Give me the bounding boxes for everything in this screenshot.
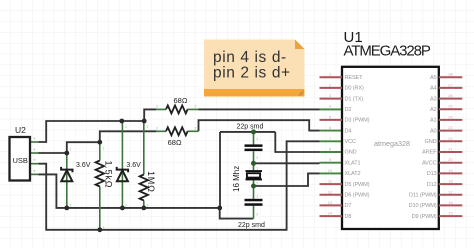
U1 left pin numbers: [328, 72, 333, 216]
svg-text:XLAT1: XLAT1: [345, 160, 361, 166]
wire D+ net riser to bottom 68R resistor: [67, 131, 156, 153]
pin 21 AREF stub: [439, 151, 463, 153]
crystal Y1 16 Mhz: [246, 170, 263, 180]
svg-text:D3 (PWM): D3 (PWM): [345, 118, 370, 124]
svg-text:+: +: [33, 147, 36, 152]
junction cap C1 / crystal: [251, 161, 256, 166]
svg-text:14: 14: [328, 211, 333, 216]
svg-text:16: 16: [448, 200, 453, 205]
pin 14 D8 stub: [320, 215, 343, 217]
pin 3 D1 stub: [320, 98, 343, 100]
pin 19 D13 stub: [439, 172, 463, 174]
wire crystal top cap rail: [220, 131, 275, 133]
resistor R2 68R bottom: [166, 127, 188, 135]
svg-text:U2: U2: [15, 125, 26, 135]
svg-text:1: 1: [70, 148, 72, 152]
svg-text:D13: D13: [427, 171, 437, 177]
wire USB pin3 to bottom rail and VCC riser: [39, 141, 320, 230]
svg-text:AVCC: AVCC: [422, 160, 437, 166]
capacitor C2 22p smd: [245, 199, 263, 206]
svg-text:18: 18: [448, 179, 453, 184]
svg-text:A0: A0: [430, 128, 437, 134]
pin 22 GND stub: [439, 140, 463, 142]
svg-text:D1 (TX): D1 (TX): [345, 96, 364, 102]
wire USB pin4 to GND rail: [39, 174, 220, 208]
resistor R4 1M leads: [143, 121, 145, 208]
svg-text:12: 12: [328, 189, 333, 194]
GREEN LEADS: [30, 109, 254, 229]
svg-text:D6 (PWM): D6 (PWM): [345, 193, 370, 199]
junction GND rail / zener D1 bottom: [64, 206, 69, 211]
svg-text:2: 2: [256, 156, 258, 160]
svg-text:pin 4 is d-: pin 4 is d-: [213, 49, 287, 66]
junction cap C1 top: [251, 129, 256, 134]
svg-text:USB: USB: [13, 156, 28, 165]
svg-text:2: 2: [256, 213, 258, 217]
svg-text:D7: D7: [345, 203, 352, 209]
svg-text:22: 22: [448, 136, 453, 141]
pin 20 AVCC stub: [439, 162, 463, 164]
svg-text:24: 24: [448, 114, 453, 119]
svg-text:A1: A1: [430, 118, 437, 124]
svg-text:10: 10: [328, 168, 333, 173]
svg-text:D10 (PWM): D10 (PWM): [409, 203, 437, 209]
wire GND rail drop under caps: [220, 208, 254, 219]
pin 18 D12 stub: [439, 183, 463, 185]
pin 28 A5 stub: [439, 76, 463, 78]
USB pin 4 lead: [30, 173, 39, 175]
wire D- riser to top 68R resistor: [144, 109, 156, 121]
svg-text:A2: A2: [430, 107, 437, 113]
zener diode D2 3.6V: [117, 167, 128, 181]
wire bottom 68R to chip pin D4: [199, 120, 320, 131]
svg-text:15: 15: [448, 211, 453, 216]
svg-text:GND: GND: [345, 150, 357, 156]
svg-text:GND: GND: [425, 139, 437, 145]
resistor pin markers: [156, 104, 198, 131]
IC U1 ATMEGA328P body: [342, 29, 439, 229]
svg-text:+: +: [33, 168, 36, 173]
U1 right pin numbers: [448, 72, 453, 216]
svg-text:D11 (PWM): D11 (PWM): [409, 193, 437, 199]
svg-text:28: 28: [448, 72, 453, 77]
pin 16 D10 stub: [439, 204, 463, 206]
U1 right pin stubs (unconnected, red): [439, 77, 463, 216]
resistor R1 top 68R leads: [156, 108, 199, 110]
svg-text:1.5kΩ: 1.5kΩ: [103, 161, 113, 189]
svg-text:27: 27: [448, 82, 453, 87]
chip pin D2 stub: [320, 108, 343, 110]
svg-text:RESET: RESET: [345, 75, 364, 81]
svg-text:2: 2: [70, 204, 72, 208]
svg-text:17: 17: [448, 189, 453, 194]
svg-text:D12: D12: [427, 182, 437, 188]
U1 left pin names: [345, 75, 370, 220]
pin 2 D0 stub: [320, 87, 343, 89]
wire crystal cap rail left drop: [219, 132, 221, 208]
svg-text:23: 23: [448, 125, 453, 130]
junction GND rail / 1M bottom: [141, 206, 146, 211]
JUNCTION DOTS: [64, 119, 222, 233]
pin 23 A0 stub: [439, 130, 463, 132]
svg-text:1: 1: [256, 195, 258, 199]
wire crystal top junction to chip XLAT1: [254, 162, 320, 164]
resistor R4 1M: [140, 175, 148, 201]
svg-text:pin 2 is d+: pin 2 is d+: [213, 65, 291, 82]
USB pin 1 lead: [30, 141, 39, 143]
svg-text:1: 1: [147, 125, 149, 129]
zener D1 lead: [66, 153, 68, 208]
svg-text:1: 1: [103, 147, 105, 151]
svg-text:19: 19: [448, 168, 453, 173]
pin 15 D9 stub: [439, 215, 463, 217]
svg-text:+: +: [33, 158, 36, 163]
resistor R2 bottom 68R leads: [156, 130, 199, 132]
svg-text:A3: A3: [430, 96, 437, 102]
svg-text:26: 26: [448, 93, 453, 98]
svg-text:68Ω: 68Ω: [168, 138, 182, 147]
resistor R1 68R top: [166, 105, 188, 113]
svg-text:2: 2: [125, 204, 127, 208]
pin 13 D7 stub: [320, 204, 343, 206]
pin 1 RESET stub: [320, 76, 343, 78]
USB pin 3 lead: [30, 163, 39, 165]
svg-text:A5: A5: [430, 75, 437, 81]
junction GND rail / zener D2 bottom: [120, 206, 125, 211]
svg-text:13: 13: [328, 200, 333, 205]
svg-text:1MΩ: 1MΩ: [146, 171, 156, 193]
junction bottom rail / 1.5k bottom: [97, 227, 102, 232]
wire crystal bottom junction to chip XLAT2: [254, 173, 320, 186]
svg-text:2: 2: [147, 204, 149, 208]
U1 left pin stubs (unconnected, red): [320, 77, 343, 216]
wire USB pin2 to zener D1 junction: [39, 152, 67, 154]
chip pin XLAT2 stub: [320, 172, 343, 174]
svg-text:D5 (PWM): D5 (PWM): [345, 182, 370, 188]
svg-text:XLAT2: XLAT2: [345, 171, 361, 177]
junction GND rail / cap drop: [217, 206, 222, 211]
svg-text:D9 (PWM): D9 (PWM): [412, 214, 437, 220]
pin 5 D3 stub: [320, 119, 343, 121]
svg-text:1: 1: [256, 137, 258, 141]
svg-text:VCC: VCC: [345, 139, 356, 145]
tiny pin marks on vertical components: [70, 125, 259, 230]
svg-text:20: 20: [448, 157, 453, 162]
svg-text:atmega328: atmega328: [374, 139, 410, 148]
pin 17 D11 stub: [439, 194, 463, 196]
svg-text:3.6V: 3.6V: [126, 162, 141, 169]
pin 27 A4 stub: [439, 87, 463, 89]
svg-text:D8: D8: [345, 214, 352, 220]
svg-text:25: 25: [448, 104, 453, 109]
svg-text:21: 21: [448, 147, 453, 152]
svg-text:D2: D2: [345, 107, 352, 113]
junction crystal / cap C2: [251, 184, 256, 189]
svg-text:16 Mhz: 16 Mhz: [232, 166, 241, 192]
junction D- rail / 1M riser: [142, 119, 147, 124]
USB pin markers: [33, 136, 36, 173]
U1 right pin names: [409, 75, 438, 220]
wire cap rail to chip GND pin: [275, 132, 319, 152]
svg-text:D4: D4: [345, 128, 352, 134]
resistor R3 1.5k leads: [99, 142, 101, 230]
junction D+ / zener D1 top: [64, 151, 69, 156]
svg-text:+: +: [33, 136, 36, 141]
pin 25 A2 stub: [439, 108, 463, 110]
svg-text:AREF: AREF: [422, 150, 437, 156]
pin 11 D5 stub: [320, 183, 343, 185]
svg-text:2: 2: [103, 226, 105, 230]
chip pin VCC stub: [320, 140, 343, 142]
pin 26 A3 stub: [439, 98, 463, 100]
pin 12 D6 stub: [320, 194, 343, 196]
svg-text:2: 2: [256, 182, 258, 186]
chip pin GND stub: [320, 151, 343, 153]
zener D2 lead: [121, 121, 123, 208]
wire USB pin1 to net D- top rail: [39, 121, 145, 142]
svg-text:A4: A4: [430, 86, 437, 92]
capacitor C1 22p smd: [245, 144, 263, 151]
wire top 68R to chip pin D2: [199, 108, 320, 110]
svg-text:1: 1: [256, 167, 258, 171]
chip pin D4 stub: [320, 130, 343, 132]
junction D+ / 1.5k top: [97, 140, 102, 145]
junction D- rail / zener D2: [119, 119, 124, 124]
USB pin 2 lead: [30, 152, 39, 154]
svg-text:1: 1: [125, 125, 127, 129]
sticky note: [204, 40, 305, 97]
chip pin XLAT1 stub: [320, 162, 343, 164]
crystal chain leads: [253, 132, 255, 219]
svg-text:D0 (RX): D0 (RX): [345, 86, 364, 92]
resistor R3 1.5k: [96, 161, 104, 187]
zener diode D1 3.6V: [61, 167, 72, 181]
pin 24 A1 stub: [439, 119, 463, 121]
USB connector U2: [10, 125, 31, 181]
svg-text:22p smd: 22p smd: [238, 222, 265, 229]
svg-text:22p smd: 22p smd: [237, 123, 264, 130]
svg-text:ATMEGA328P: ATMEGA328P: [344, 43, 431, 60]
svg-text:3.6V: 3.6V: [76, 162, 91, 169]
svg-text:68Ω: 68Ω: [174, 96, 188, 105]
